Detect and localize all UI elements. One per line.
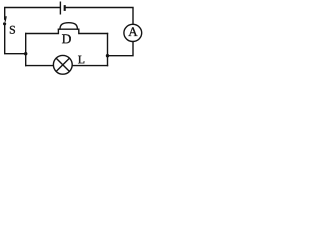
switch S pivot — [3, 22, 6, 25]
svg-text:L: L — [78, 52, 85, 66]
wire bell branch right segment — [79, 29, 108, 33]
battery long plate (left) — [59, 2, 61, 15]
wire lamp branch right segment — [72, 65, 107, 67]
lamp L cross stroke 2 — [56, 58, 69, 71]
ammeter U1 circle — [124, 24, 142, 41]
node A junction dot — [24, 52, 27, 55]
wire left inner vertical through node A — [25, 34, 27, 66]
wire ammeter bottom to right corner and left to node B — [108, 42, 134, 56]
svg-text:D: D — [62, 31, 72, 46]
wire battery to top-right corner down to ammeter — [66, 8, 133, 25]
switch S lever — [5, 16, 6, 22]
wire left vertical below switch to corner and node A — [5, 25, 26, 53]
node B junction dot — [106, 54, 109, 57]
bell D dome — [60, 23, 78, 29]
battery short thick plate (right) — [64, 5, 66, 11]
svg-text:S: S — [9, 23, 16, 37]
lamp L cross stroke 1 — [56, 58, 69, 71]
wire bell branch left segment — [26, 29, 59, 33]
lamp L circle — [53, 55, 72, 74]
wire right inner vertical through node B — [107, 34, 109, 66]
wire top-left: corner to battery — [5, 8, 60, 20]
svg-text:A: A — [128, 24, 138, 39]
bell D base line (brim) — [58, 28, 80, 30]
wire lamp branch left segment — [26, 65, 54, 67]
